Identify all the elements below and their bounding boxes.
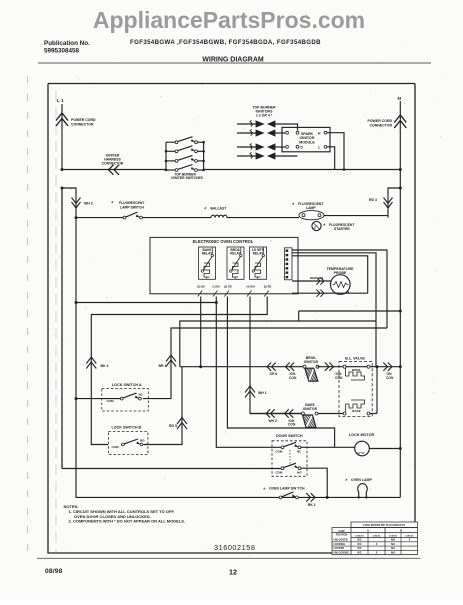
top burner igniter switches bank — [165, 142, 167, 170]
svg-text:N: N — [398, 96, 402, 102]
wire RD5 vertical to lock switch B — [144, 367, 183, 445]
svg-text:LOCKED: LOCKED — [334, 547, 345, 550]
svg-text:LOCKING: LOCKING — [334, 543, 346, 546]
svg-text:IGNITOR: IGNITOR — [303, 407, 318, 411]
spark module pins — [286, 131, 289, 134]
oven lamp — [358, 484, 368, 497]
top burner ignitor spark gap 2 — [237, 132, 256, 134]
wire L1 tap to harness connector WH3 — [62, 188, 76, 218]
BROIL relay relay in EOC — [227, 247, 244, 279]
midband wire y321 — [180, 321, 376, 367]
wire broil ignitor to valve — [318, 366, 345, 368]
svg-text:(1) BU: (1) BU — [212, 285, 220, 289]
connector IGN CON chevron (bake) — [285, 409, 294, 417]
svg-text:RD 5: RD 5 — [169, 424, 177, 428]
connector RD 3 chevron — [384, 198, 393, 209]
svg-text:COM: COM — [112, 445, 120, 449]
svg-text:COM-NO: COM-NO — [355, 536, 364, 538]
svg-text:LAMP: LAMP — [306, 206, 316, 210]
lock switch A dashed box — [102, 389, 149, 412]
L1 bus down left side — [61, 188, 63, 469]
svg-text:COM: COM — [276, 450, 283, 454]
top burner ignitor spark gap 1 — [237, 123, 256, 125]
svg-text:DOOR SWITCH: DOOR SWITCH — [276, 434, 303, 438]
wire switch bank to N bus — [204, 169, 401, 171]
wire EOC terminal 5 to left bus BK4 — [91, 297, 267, 445]
EOC output wire pin3 probe loop — [292, 256, 368, 293]
svg-text:(2) BK: (2) BK — [197, 285, 205, 289]
oven lamp switch — [279, 496, 282, 499]
scan page edge artifact — [27, 76, 29, 560]
fluorescent starter — [312, 221, 321, 230]
broil ignitor — [303, 365, 306, 368]
door switch linkage — [289, 450, 291, 465]
svg-text:1 2 OR 4 *: 1 2 OR 4 * — [256, 114, 273, 118]
svg-text:N/C: N/C — [357, 539, 361, 542]
svg-text:LOCK SWITCH A: LOCK SWITCH A — [112, 383, 142, 387]
svg-text:Publication No.: Publication No. — [44, 40, 90, 47]
svg-text:LOCK MOTOR SW TCH CONTACTS: LOCK MOTOR SW TCH CONTACTS — [363, 524, 405, 527]
wire lamp to connector RD3 — [324, 188, 400, 218]
svg-text:B: B — [400, 529, 402, 533]
connector BK 4 chevron — [86, 357, 96, 369]
top burner ignitor spark gap 4 — [237, 155, 256, 157]
svg-text:CON: CON — [288, 423, 296, 427]
svg-text:LOCK SWITCH B: LOCK SWITCH B — [112, 425, 142, 429]
svg-text:BK 2: BK 2 — [308, 503, 316, 507]
connector WH 1 chevron — [245, 386, 255, 398]
svg-text:L: L — [318, 146, 320, 150]
svg-text:LAMP SWITCH: LAMP SWITCH — [120, 205, 144, 209]
svg-text:BROIL: BROIL — [352, 368, 362, 372]
svg-text:OR 6: OR 6 — [270, 372, 278, 376]
temperature probe resistor — [331, 275, 351, 295]
svg-text:CONNECTOR: CONNECTOR — [71, 122, 94, 126]
svg-text:CONNECTOR: CONNECTOR — [370, 123, 393, 127]
svg-text:5995308458: 5995308458 — [44, 48, 80, 55]
wire L1 to door switch pole B — [62, 468, 281, 470]
svg-text:(3) OR: (3) OR — [224, 285, 232, 289]
probe connector chevron 2 — [316, 290, 324, 297]
wire spark module H to N bus — [327, 133, 344, 170]
svg-text:WH 3: WH 3 — [84, 202, 93, 206]
svg-text:WH 2: WH 2 — [269, 419, 277, 423]
svg-text:RED: RED — [310, 276, 317, 280]
svg-text:12: 12 — [229, 567, 237, 576]
wire ballast to fluorescent lamp — [227, 217, 299, 219]
svg-text:STARTER: STARTER — [334, 227, 350, 231]
svg-text:FGF354BGWA ,FGF354BGWB, FGF354: FGF354BGWA ,FGF354BGWB, FGF354BGDA, FGF3… — [130, 39, 321, 46]
broil valve coil — [343, 365, 346, 368]
probe connector chevron 1 — [316, 277, 324, 284]
svg-text:WH 1: WH 1 — [258, 391, 267, 395]
wire switch to ballast — [143, 217, 212, 219]
wire lock motor to N bus — [369, 448, 400, 450]
svg-text:AppliancePartsPros.com: AppliancePartsPros.com — [93, 7, 365, 33]
svg-text:COM: COM — [107, 399, 115, 403]
svg-text:CON: CON — [289, 376, 297, 380]
wire bus to lock switch A — [76, 398, 120, 400]
svg-text:BR 1: BR 1 — [159, 364, 167, 368]
wire bus L1b to EOC terminal 1 and door switch COM — [76, 302, 216, 304]
wire EOC to probe return — [292, 292, 368, 294]
left bus down to oven lamp wire — [76, 218, 78, 498]
svg-text:IGNITER SWITCHES: IGNITER SWITCHES — [171, 176, 203, 180]
power cord connector (L1 side) — [61, 104, 63, 170]
svg-text:08/98: 08/98 — [45, 568, 63, 575]
svg-text:NO: NO — [140, 438, 145, 442]
lock motor M1 — [355, 441, 370, 456]
svg-text:COM-NC: COM-NC — [372, 536, 381, 538]
svg-text:COM-NC: COM-NC — [405, 536, 414, 538]
broil row wire — [180, 366, 305, 368]
wire to fluorescent lamp switch — [76, 217, 123, 219]
wire bake ignitor to valve — [318, 413, 343, 415]
svg-text:ELECTRONIC OVEN CONTROL: ELECTRONIC OVEN CONTROL — [193, 239, 254, 244]
svg-text:OVEN LAMP SW TCH: OVEN LAMP SW TCH — [269, 487, 305, 491]
B.L. valve dashed box — [339, 362, 372, 417]
igniter switch 1 — [166, 141, 175, 143]
top burner ignitor spark gap 3 — [237, 146, 256, 148]
svg-text:OVEN LAMP: OVEN LAMP — [351, 478, 372, 482]
svg-text:N/C: N/C — [357, 547, 361, 550]
svg-text:RD 3: RD 3 — [369, 198, 377, 202]
svg-text:L 1: L 1 — [57, 98, 64, 103]
svg-text:N/A: N/A — [391, 543, 395, 546]
valve internal vertical — [376, 367, 378, 414]
connector IGN CON chevron (broil) — [286, 363, 295, 371]
igniter switch 3 — [166, 160, 175, 162]
scan ghost line inside frame — [55, 90, 57, 552]
bake ignitor — [301, 412, 304, 415]
svg-text:UNLOCKED: UNLOCKED — [334, 539, 348, 542]
svg-text:WIRING DIAGRAM: WIRING DIAGRAM — [202, 57, 264, 64]
power cord connector (N side) — [399, 101, 401, 497]
svg-text:B.L. VALVE: B.L. VALVE — [345, 357, 365, 361]
wire door NO down to lamp wire — [301, 468, 327, 497]
wire spark module L to bottom wire — [327, 147, 335, 170]
wire ignitor 4 stub — [275, 155, 298, 157]
EOC terminal 3 wire to lock circuit — [227, 297, 334, 448]
bake row wire — [250, 413, 303, 415]
connector IGN CON chevron 2 (broil) — [325, 363, 334, 371]
oven lamp bottom wire — [76, 496, 400, 498]
svg-text:COM: COM — [276, 470, 283, 474]
svg-text:CON: CON — [386, 376, 394, 380]
svg-text:CAM: CAM — [339, 529, 345, 533]
connector GN CON chevron — [383, 363, 392, 371]
BAKE relay relay in EOC — [199, 247, 216, 279]
wire door NC to lock motor — [301, 446, 355, 448]
wire L1 to igniter switch bank — [62, 169, 166, 171]
svg-text:BALLAST: BALLAST — [211, 206, 228, 210]
electronic oven control box — [150, 237, 298, 293]
connector WH 2 chevron — [266, 409, 275, 417]
diagram frame — [48, 84, 415, 554]
door switch dashed box — [272, 441, 307, 477]
svg-text:N/C: N/C — [357, 552, 361, 555]
connector RD 5 chevron — [177, 418, 187, 430]
connector BK 2 chevron — [306, 493, 315, 501]
svg-text:N/O: N/O — [391, 539, 395, 542]
probe right leg — [347, 292, 349, 294]
LK MTR relay relay in EOC — [250, 247, 267, 279]
wire ignitor 2 to spark module pin — [275, 132, 285, 134]
svg-text:POSITION: POSITION — [336, 533, 348, 536]
svg-text:IGNITOR: IGNITOR — [304, 360, 319, 364]
svg-text:N/C: N/C — [357, 543, 361, 546]
lock motor switch contacts table — [351, 522, 418, 528]
wire ignitor 3 to spark module pin — [275, 146, 285, 148]
EOC terminal 2 wire to broil row — [200, 297, 202, 367]
EOC output wire pin2 — [292, 253, 376, 367]
wire valve to N bus — [370, 366, 400, 368]
svg-text:NO: NO — [297, 470, 302, 474]
footer rule — [37, 557, 420, 559]
svg-text:316002158: 316002158 — [214, 543, 255, 552]
wire EOC to probe (RED) — [292, 280, 331, 282]
junction fluorescent switch — [75, 216, 78, 219]
lock switch B dashed box — [108, 432, 147, 455]
connector WH 3 chevron — [72, 198, 81, 209]
svg-text:LOCK MOTOR: LOCK MOTOR — [349, 433, 374, 437]
EOC terminal 4 wire to bake row — [250, 297, 302, 414]
connector OR 6 chevron — [267, 363, 276, 371]
midband wire y328 — [143, 328, 387, 399]
connector BR 1 chevron — [166, 355, 176, 367]
svg-text:UNLOCKING: UNLOCKING — [334, 552, 349, 555]
svg-text:(4) WH: (4) WH — [247, 285, 255, 289]
igniter switch 2 — [166, 150, 175, 152]
svg-text:CONNECTOR: CONNECTOR — [102, 162, 124, 166]
scan speckle noise — [159, 95, 162, 98]
EOC pin strip connector — [285, 248, 293, 280]
svg-text:N/A: N/A — [391, 547, 395, 550]
wire ignitor 1 to spark module pin — [275, 124, 298, 131]
EOC output wire pin1 — [292, 250, 387, 328]
spark ignitor module U1 — [282, 127, 330, 151]
svg-text:MODULE: MODULE — [299, 140, 315, 144]
svg-text:COM-NO: COM-NO — [389, 536, 398, 538]
svg-text:(5) RD: (5) RD — [264, 285, 272, 289]
igniter switch 4 — [166, 169, 175, 171]
svg-text:2. COMPONENTS WITH * DO NOT AP: 2. COMPONENTS WITH * DO NOT APPEAR ON AL… — [69, 519, 186, 524]
bake valve coil — [343, 412, 346, 415]
wire midband to N bus — [299, 310, 401, 312]
header rule — [38, 62, 431, 64]
svg-text:BK 4: BK 4 — [101, 364, 109, 368]
igniter harness connector chevron — [109, 165, 120, 175]
svg-text:BAKE: BAKE — [352, 409, 361, 413]
svg-text:A: A — [367, 529, 369, 533]
svg-text:N/A: N/A — [391, 552, 395, 555]
